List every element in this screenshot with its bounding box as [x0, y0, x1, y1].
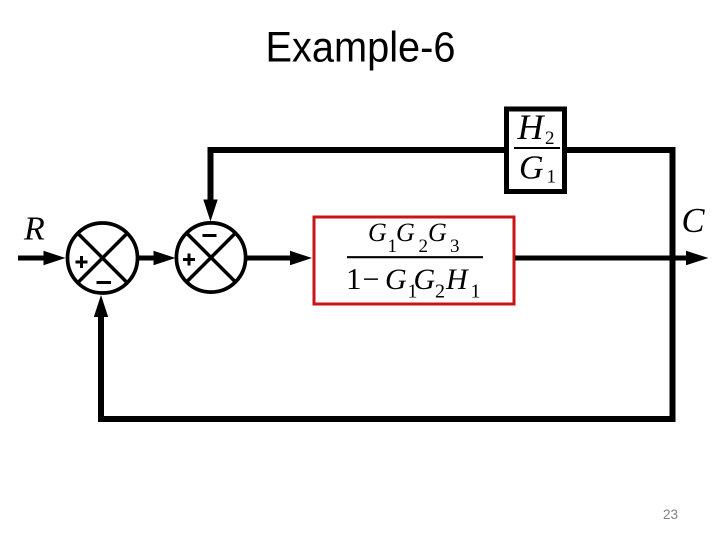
svg-text:G: G [428, 218, 447, 247]
svg-text:23: 23 [663, 507, 678, 522]
S2 minus sign [203, 234, 217, 237]
svg-text:R: R [23, 211, 45, 248]
wire arrow into summing junction S1 bottom [94, 295, 108, 317]
svg-text:G: G [396, 218, 415, 247]
block G transfer function (red box) [314, 217, 514, 304]
svg-text:C: C [682, 202, 706, 240]
svg-text:−: − [363, 263, 380, 296]
svg-text:2: 2 [419, 236, 429, 257]
svg-text:1: 1 [471, 281, 481, 303]
svg-text:H: H [445, 263, 470, 296]
svg-text:G: G [519, 150, 544, 187]
svg-text:1: 1 [547, 167, 557, 188]
svg-text:H: H [517, 107, 546, 147]
block H feedback (H2 over G1) [507, 109, 565, 192]
wire arrow into summing junction S2 top [203, 200, 217, 222]
summing junction S1 [68, 223, 138, 293]
svg-text:G: G [385, 263, 407, 296]
S1 plus sign [76, 256, 88, 268]
wire S2 to block G arrow [246, 251, 313, 265]
S1 minus sign [97, 281, 112, 284]
S2 plus sign [183, 254, 195, 266]
block H denominator G1 [519, 150, 556, 188]
block G fraction bar [347, 256, 483, 258]
svg-text:G: G [368, 218, 387, 247]
wire input R arrow [18, 251, 66, 265]
wire output C arrow [515, 251, 709, 265]
svg-text:G: G [414, 263, 436, 296]
block H fraction bar [514, 147, 560, 149]
block H numerator H2 [517, 107, 555, 149]
wire feedback loop: top horizontal, right vertical, bottom horizontal, left vertical [101, 150, 673, 419]
svg-text:2: 2 [545, 128, 555, 149]
wire S1 to S2 arrow [137, 251, 176, 265]
block G numerator G1G2G3 [368, 218, 460, 257]
summing junction S2 [176, 223, 245, 292]
svg-text:1: 1 [346, 261, 362, 296]
svg-text:2: 2 [435, 281, 445, 303]
block G denominator 1-G1G2H1 [346, 261, 481, 303]
svg-text:3: 3 [450, 236, 460, 257]
svg-text:Example-6: Example-6 [266, 24, 456, 72]
